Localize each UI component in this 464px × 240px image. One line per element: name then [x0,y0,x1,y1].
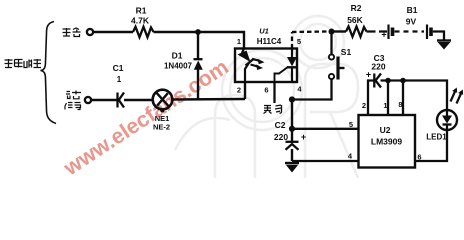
opto internal LED [238,49,254,83]
label 悬浮 (floating) [264,105,282,114]
svg-text:C1: C1 [113,63,124,73]
wire terminal to C1 [91,99,117,101]
svg-text:6: 6 [417,153,421,162]
svg-text:1: 1 [117,75,122,84]
opto light arrows [251,59,265,70]
capacitor C3 220uF [366,53,386,88]
wire C3 to LED corner [381,81,448,111]
IC U2 LM3909 [359,115,416,168]
wire R2 to battery [367,30,388,32]
brace of phone line [41,22,57,124]
battery B1 9V [381,5,431,40]
terminal ring input [87,29,93,35]
node B junction dot [329,29,335,35]
resistor R1 4.7K [131,6,153,38]
svg-text:220: 220 [371,62,385,72]
label 信号 (signal) [65,103,81,110]
node D junction dot [289,126,295,132]
node A junction dot [195,29,201,35]
U1 pin 6 floating stub [273,82,275,103]
U2 pin2 riser and corner to C3 [368,81,374,116]
wire terminal to R1 [93,31,133,33]
svg-text:1N4007: 1N4007 [164,62,193,71]
svg-text:LED1: LED1 [426,133,447,142]
capacitor C1 1uF [113,63,124,108]
svg-text:2: 2 [237,86,241,95]
opto pin2 riser [244,82,246,99]
svg-text:B1: B1 [407,5,418,15]
opto internal SCR [275,49,298,83]
svg-text:+: + [301,132,306,142]
svg-text:U2: U2 [380,125,391,135]
svg-text:H11C4: H11C4 [257,37,282,46]
svg-text:5: 5 [349,120,353,129]
node E junction dot [385,78,391,84]
wire C1 to NE1 [124,99,153,101]
svg-text:R1: R1 [136,6,147,16]
svg-text:1: 1 [237,37,241,46]
LED LED1 [426,110,457,142]
watermark gray rings and letters [175,16,358,178]
capacitor C2 220uF [274,120,306,161]
wire node C down to node D [291,100,293,129]
wire S1 to node C [292,79,332,99]
svg-text:8: 8 [398,100,402,109]
resistor R2 56K [332,3,367,37]
svg-text:S1: S1 [341,47,352,57]
wire NE1 to opto pin2, D1 tap [172,98,245,101]
svg-text:56K: 56K [347,15,363,25]
svg-text:+: + [381,30,386,40]
ground battery side [437,41,451,50]
label 接电话线 (connect phone line) [5,59,42,68]
svg-text:R2: R2 [351,3,362,13]
svg-text:+: + [366,70,371,80]
dashed wire pin5 to node B [292,30,328,33]
neon lamp NE1 NE-2 [153,90,173,132]
svg-text:LM3909: LM3909 [371,137,402,147]
wire R1 to node A [154,31,199,33]
svg-text:NE-2: NE-2 [153,123,170,132]
svg-text:1: 1 [383,101,387,110]
wire battery to ground [433,32,444,41]
svg-text:6: 6 [264,86,268,95]
LED1 emission arrows [451,88,464,104]
U2 pin1 riser [387,81,389,116]
wire LED1 to U2 pin6 [415,130,447,161]
wire node D to U2 pin5 [292,128,359,130]
node F junction dot [400,78,406,84]
optocoupler U1 H11C4 box [235,27,297,83]
svg-text:2: 2 [362,101,366,110]
svg-text:5: 5 [297,37,301,46]
svg-text:D1: D1 [172,51,183,61]
svg-text:9V: 9V [406,17,417,27]
ground C2 side [285,163,299,173]
svg-text:220: 220 [274,132,288,142]
svg-text:C2: C2 [275,120,286,130]
svg-text:U1: U1 [259,27,269,36]
U2 pin8 riser [402,81,404,116]
label 振铃 (ring) [63,28,81,37]
watermark red text www.elecfans.com [59,55,233,181]
label 话音 (voice) [66,91,81,99]
terminal voice input [85,97,91,103]
wire C2 to U2 pin4 [292,160,359,162]
U1 pin 5 dashed riser [291,32,293,49]
svg-text:4.7K: 4.7K [131,16,150,26]
node C junction dot [289,96,295,102]
switch S1 [329,32,352,80]
wire node A to opto pin1 corner [198,32,244,49]
diode D1 1N4007 [164,32,203,99]
